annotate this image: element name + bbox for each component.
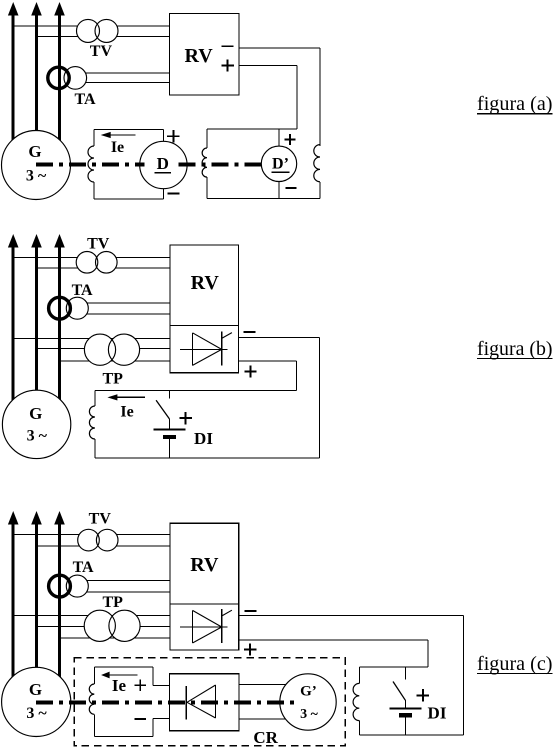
- wire TP line 3 (fig b): [60, 360, 170, 362]
- switch (fig c): [404, 667, 406, 680]
- figure (b) phase bus line 2 with arrow: [31, 234, 42, 248]
- figure (c) phase bus line 2 with arrow: [31, 511, 42, 525]
- voltage regulator RV box (fig c): [170, 523, 239, 650]
- figure (c) phase bus line 1 with arrow: [8, 511, 19, 525]
- voltage regulator RV box (fig a): [169, 14, 239, 95]
- RV internal divider (fig c): [170, 603, 239, 605]
- pilot generator G-prime circle: [280, 674, 336, 730]
- svg-text:3 ~: 3 ~: [26, 168, 47, 185]
- transformer TV (fig c): [78, 529, 100, 551]
- svg-text:TV: TV: [87, 235, 110, 252]
- svg-text:3 ~: 3 ~: [26, 705, 47, 722]
- svg-text:figura (c): figura (c): [477, 654, 553, 675]
- wire RV minus output (fig c): [239, 614, 464, 616]
- transformer TV (fig a): [77, 19, 100, 42]
- current transformer TA (fig b): [66, 297, 88, 319]
- switch (fig b): [169, 390, 171, 398]
- svg-text:DI: DI: [194, 429, 213, 448]
- svg-text:TV: TV: [90, 43, 113, 60]
- wire TV primary line 1 to RV: [13, 25, 169, 27]
- exciter field winding (right coil, fig a): [314, 145, 320, 182]
- figure (b) phase bus line 1 with arrow: [8, 234, 19, 248]
- current arrow Ie (fig a): [109, 134, 136, 136]
- svg-text:Ie: Ie: [112, 676, 127, 695]
- wire TA secondary top to RV: [78, 72, 169, 74]
- transformer TV (fig b): [76, 251, 98, 273]
- wire TA secondary bottom to RV: [78, 82, 169, 84]
- svg-text:RV: RV: [185, 45, 214, 67]
- generator G circle (fig a): [2, 131, 71, 200]
- svg-text:3 ~: 3 ~: [27, 428, 48, 445]
- svg-text:TV: TV: [89, 511, 112, 528]
- polarity minus at RV output (fig a): [222, 45, 234, 47]
- thyristor symbol (fig c): [180, 626, 228, 628]
- wire TP line 3 (fig c): [60, 637, 171, 639]
- svg-text:figura (b): figura (b): [477, 339, 553, 360]
- voltage regulator RV box (fig b): [170, 245, 239, 373]
- polarity minus at RV output (fig b): [243, 331, 255, 333]
- thyristor symbol (fig b): [180, 348, 228, 350]
- wire pilot loop bottom (fig a): [207, 197, 320, 199]
- svg-text:figura (a): figura (a): [477, 94, 553, 115]
- figure (a) phase bus line 1 with arrow: [8, 2, 19, 16]
- svg-text:CR: CR: [253, 728, 278, 747]
- polarity plus at RV output (fig a): [221, 65, 233, 67]
- polarity plus at field loop (fig c): [135, 684, 146, 686]
- battery DI (fig c): [404, 700, 406, 708]
- wire TP line 1 (fig c): [13, 615, 170, 617]
- current arrow Ie (fig c): [108, 674, 138, 676]
- generator G circle (fig b): [2, 390, 70, 458]
- exciter dynamo D circle: [140, 141, 187, 188]
- wire RV plus output (fig b): [238, 360, 296, 362]
- wire D-prime top terminal: [278, 129, 280, 150]
- wire TA secondary bottom (fig b): [78, 313, 170, 315]
- current arrow Ie (fig b): [115, 396, 145, 398]
- wire TA secondary top (fig b): [78, 302, 170, 304]
- generator field winding coil (fig b): [94, 390, 96, 406]
- svg-text:DI: DI: [428, 704, 447, 723]
- rotating diode block box: [170, 674, 239, 731]
- shaft coupling dash-dot D to D-prime: [179, 162, 266, 166]
- svg-text:RV: RV: [191, 272, 220, 294]
- wire TV primary line 1 (fig c): [13, 533, 170, 535]
- svg-text:TP: TP: [102, 594, 123, 611]
- shaft coupling dash-dot G to D: [36, 162, 145, 166]
- svg-text:TA: TA: [72, 282, 93, 299]
- wire TV primary line 2 (fig c): [37, 545, 171, 547]
- svg-text:Ie: Ie: [111, 139, 124, 156]
- wire RV plus output (fig c): [239, 639, 428, 641]
- wire TV primary line 2 (fig b): [37, 267, 170, 269]
- field winding loop bottom (fig b): [95, 457, 319, 459]
- polarity plus at D-prime (fig a): [284, 139, 295, 141]
- polarity plus at RV output (fig c): [244, 649, 256, 651]
- battery DI (fig b): [169, 419, 171, 430]
- svg-text:G: G: [29, 404, 42, 423]
- wire field loop to diode block bottom: [153, 718, 170, 720]
- svg-text:G: G: [29, 680, 42, 699]
- polarity plus at battery (fig b): [179, 417, 191, 419]
- power transformer TP (fig c): [84, 610, 115, 641]
- wire field loop to diode block top: [153, 685, 170, 687]
- current transformer TA (fig a): [64, 67, 87, 90]
- polarity minus at field loop (fig c): [134, 718, 146, 720]
- dashed rotating-rectifier box CR: [74, 658, 345, 746]
- field winding loop (fig c): [93, 667, 95, 684]
- figure (a) phase bus line 2 with arrow: [31, 2, 42, 16]
- figure (b) phase bus line 3 with arrow: [54, 234, 65, 248]
- svg-text:D’: D’: [272, 156, 289, 173]
- svg-text:G’: G’: [300, 683, 317, 699]
- RV internal divider (fig b): [170, 325, 239, 327]
- shaft coupling dash-dot G to G-prime: [36, 700, 298, 704]
- polarity minus at D (fig a): [167, 192, 179, 194]
- polarity minus at D-prime (fig a): [285, 187, 296, 189]
- figure (a) phase bus line 3 with arrow: [54, 2, 65, 16]
- generator G circle (fig c): [2, 667, 71, 736]
- DI loop bottom wire (fig c): [359, 734, 463, 736]
- svg-text:TP: TP: [102, 371, 123, 388]
- svg-text:D: D: [157, 154, 169, 173]
- svg-text:Ie: Ie: [120, 403, 133, 420]
- svg-text:3 ~: 3 ~: [300, 707, 319, 722]
- wire RV minus output (fig b): [238, 337, 319, 339]
- wire pilot loop top (fig a): [207, 128, 297, 130]
- wire diode block to G-prime bottom: [239, 718, 290, 720]
- wire TP line 2 (fig c): [37, 625, 171, 627]
- figure (c) phase bus line 3 with arrow: [54, 511, 65, 525]
- wire TA secondary bottom (fig c): [78, 591, 170, 593]
- wire RV minus output to exciter field winding: [239, 47, 320, 49]
- wire D-prime bottom terminal: [278, 176, 280, 198]
- svg-text:RV: RV: [190, 554, 219, 576]
- pilot exciter D-prime circle: [261, 146, 296, 181]
- current transformer TA (fig c): [66, 575, 88, 597]
- field winding loop top (fig b): [95, 389, 296, 391]
- main field winding loop (fig a): [93, 130, 95, 147]
- polarity plus at D (fig a): [167, 135, 179, 137]
- wire TA secondary top (fig c): [78, 579, 170, 581]
- svg-text:TA: TA: [74, 91, 95, 108]
- wire TV primary line 1 (fig b): [13, 256, 170, 258]
- wire TP line 2 (fig b): [37, 348, 170, 350]
- polarity minus at RV output (fig c): [245, 610, 257, 612]
- pilot loop left coil (fig a): [206, 129, 208, 148]
- exciter stator winding coil (fig c): [358, 667, 360, 684]
- polarity plus at battery (fig c): [417, 694, 429, 696]
- polarity plus at RV output (fig b): [244, 371, 256, 373]
- wire diode block to G-prime top: [239, 684, 290, 686]
- rotating diode symbol: [185, 686, 187, 720]
- power transformer TP (fig b): [84, 334, 115, 365]
- svg-text:TA: TA: [73, 559, 94, 576]
- wire TV primary line 2 to RV: [37, 36, 170, 38]
- wire RV plus output down to D-prime loop: [239, 65, 297, 67]
- DI loop top wire (fig c): [359, 666, 428, 668]
- svg-text:G: G: [28, 142, 41, 161]
- wire TP line 1 (fig b): [13, 338, 170, 340]
